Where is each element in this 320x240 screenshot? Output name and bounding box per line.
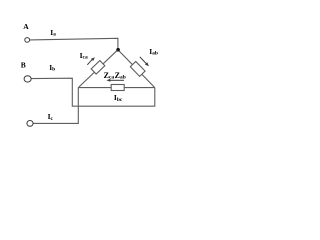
terminal C circle (27, 121, 33, 127)
terminal A circle (25, 38, 30, 43)
wire A horizontal and drop to apex (30, 38, 118, 49)
node apex junction dot (116, 48, 120, 52)
current arrow Ibc (106, 79, 124, 82)
current arrow Ica (87, 57, 95, 65)
impedance Zbc box (111, 85, 124, 91)
wire C: corner vertical down and to terminal C (33, 88, 78, 124)
impedance Zab box (130, 61, 145, 76)
svg-text:A: A (23, 22, 29, 31)
terminal B circle (24, 76, 31, 82)
wire left diagonal (Zca branch) (78, 50, 118, 88)
wire bottom side (Zbc branch) (78, 87, 155, 89)
wire right diagonal (Zab branch) (118, 50, 155, 88)
impedance Zca box (91, 61, 105, 74)
svg-text:B: B (21, 61, 26, 70)
current arrow Iab (140, 57, 149, 67)
wire B: terminal to right corner via lower horizontal (31, 78, 155, 106)
